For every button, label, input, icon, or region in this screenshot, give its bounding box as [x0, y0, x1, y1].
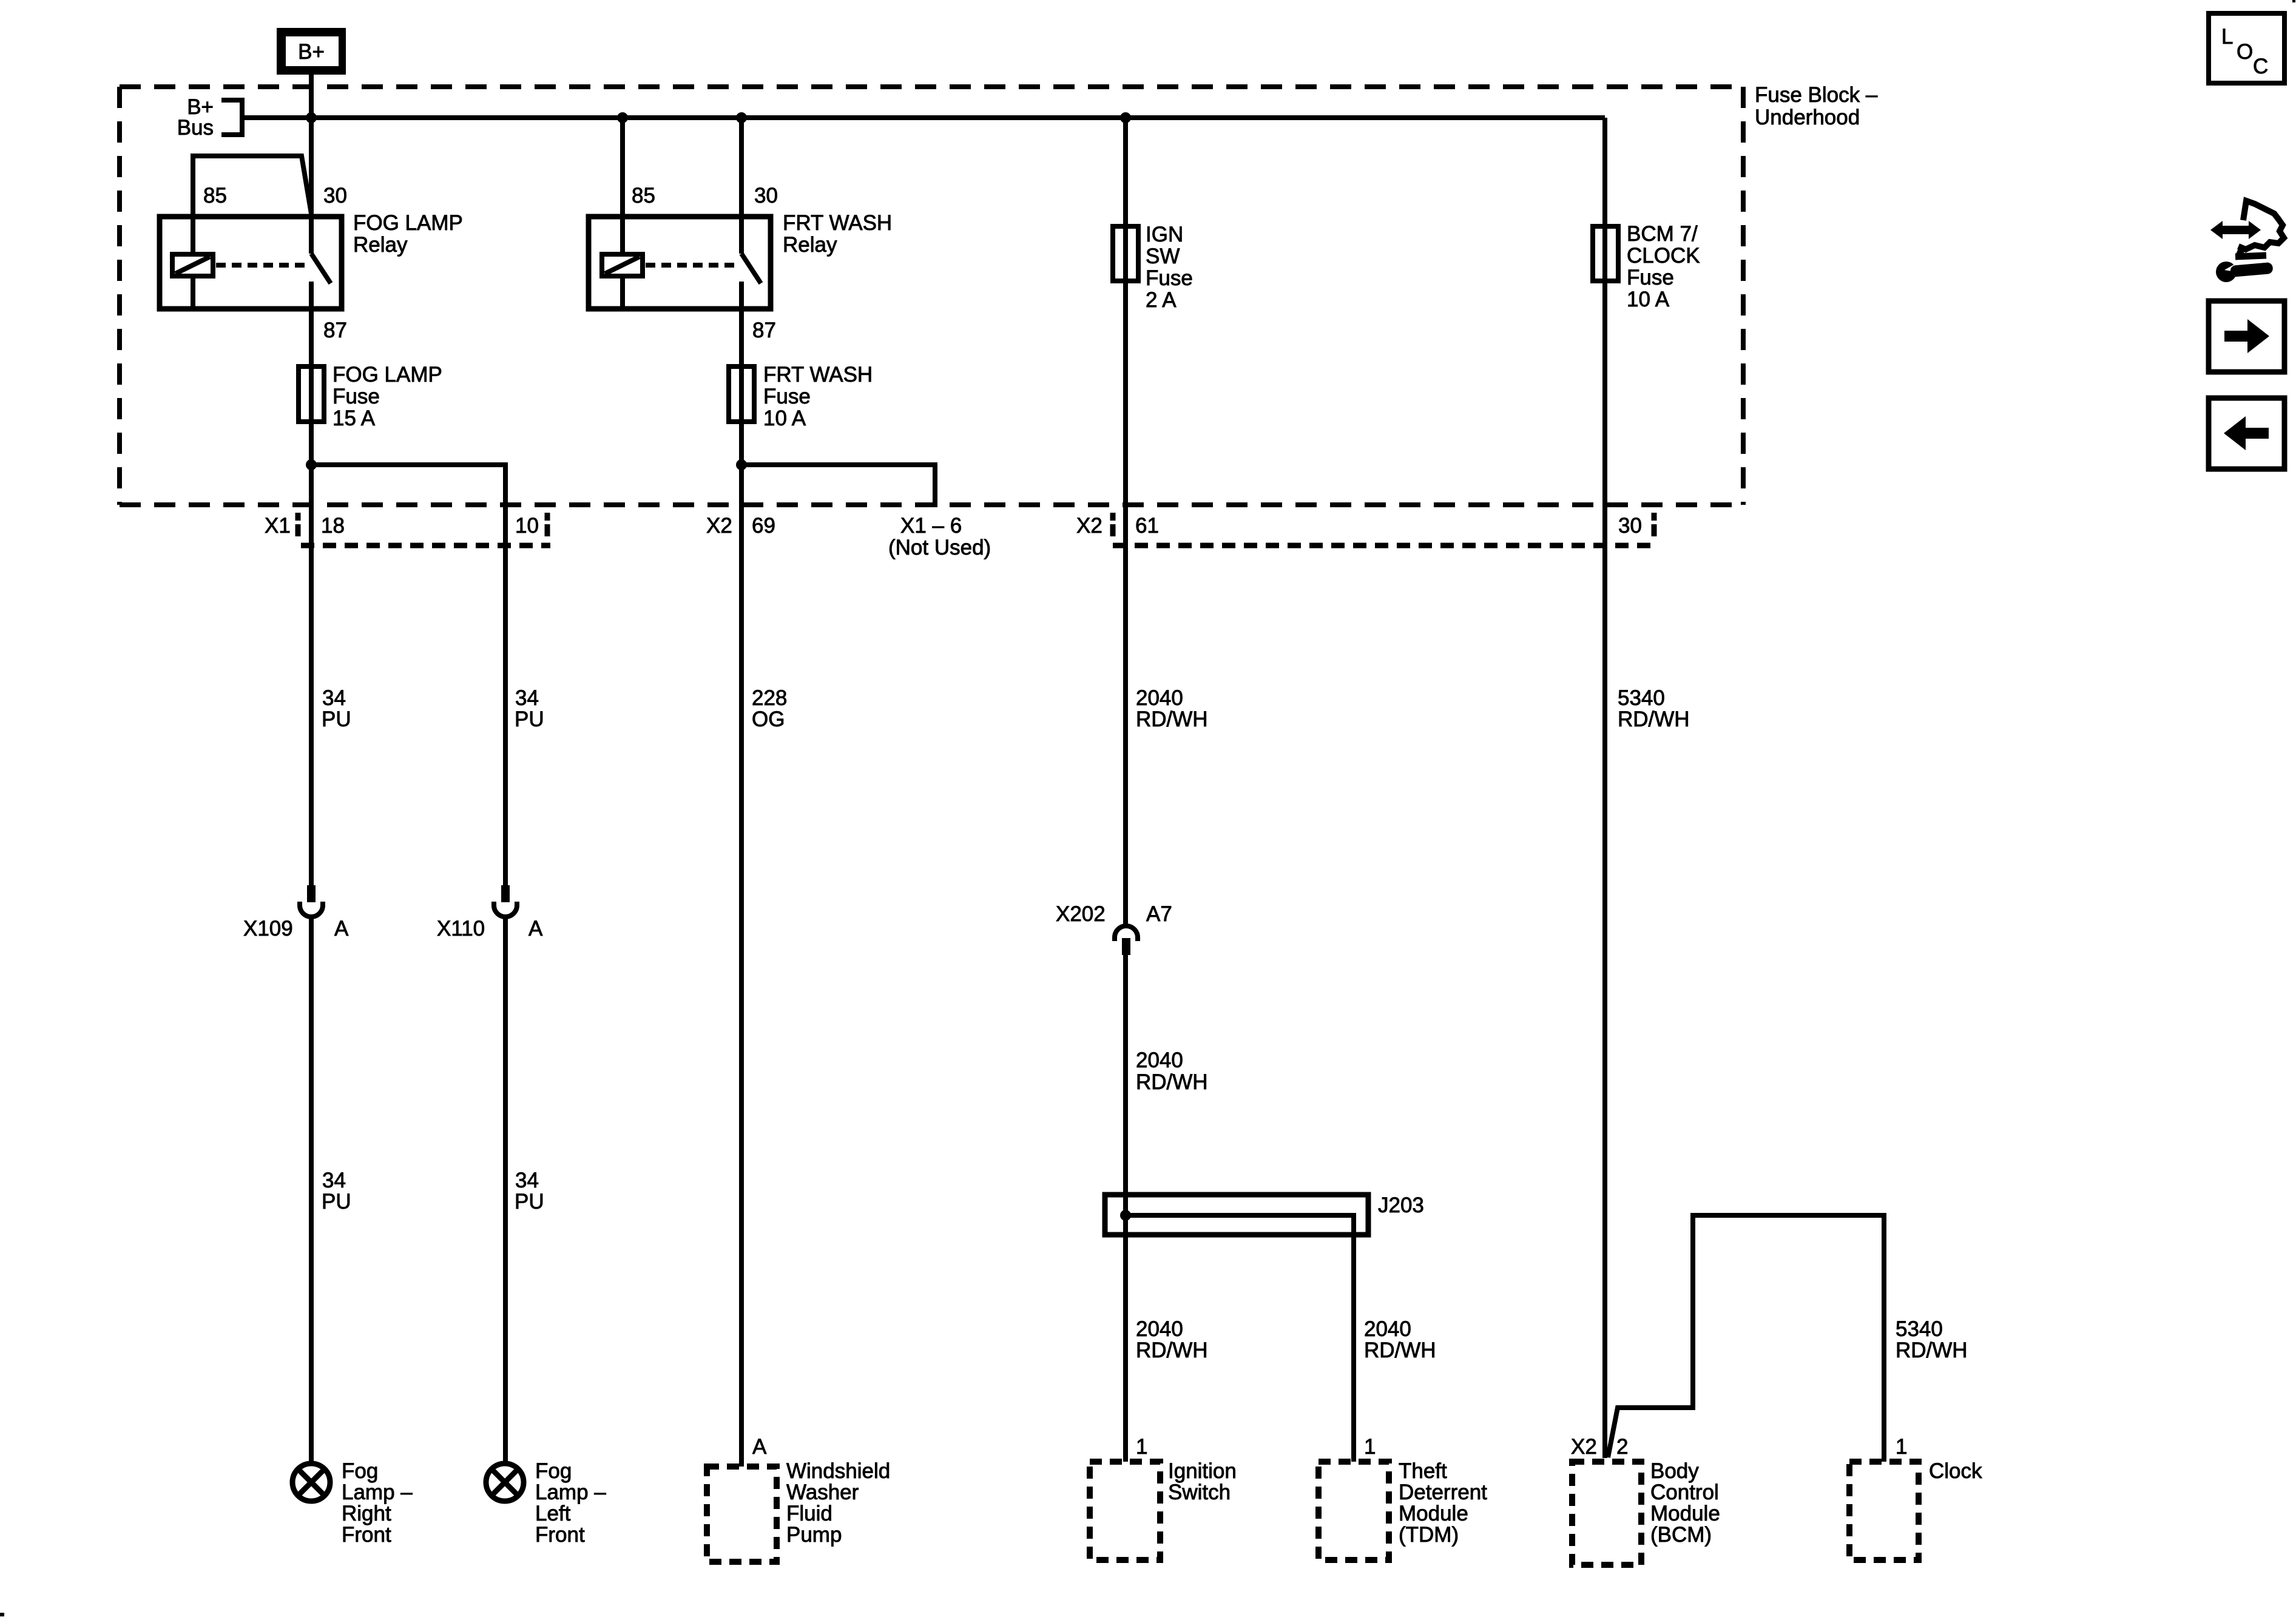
svg-text:Control: Control [1650, 1480, 1719, 1504]
svg-text:Bus: Bus [177, 116, 214, 140]
svg-text:2040: 2040 [1136, 686, 1183, 710]
wire bus to FRT WASH relay pin 85 [620, 118, 625, 254]
label X2 pin 69 [706, 514, 775, 538]
svg-text:Theft: Theft [1399, 1459, 1447, 1483]
svg-text:2040: 2040 [1136, 1317, 1183, 1341]
svg-text:2040: 2040 [1136, 1048, 1183, 1072]
svg-text:RD/WH: RD/WH [1896, 1338, 1968, 1362]
svg-text:(BCM): (BCM) [1650, 1523, 1712, 1547]
svg-text:2 A: 2 A [1146, 288, 1177, 312]
label BCM 7 CLOCK Fuse 10 A [1627, 222, 1700, 311]
label Body Control Module (BCM) [1650, 1459, 1720, 1547]
svg-text:RD/WH: RD/WH [1364, 1338, 1436, 1362]
svg-text:Underhood: Underhood [1755, 106, 1860, 129]
svg-text:O: O [2237, 40, 2253, 64]
svg-text:RD/WH: RD/WH [1136, 1338, 1208, 1362]
svg-text:J203: J203 [1378, 1193, 1424, 1217]
svg-text:FRT WASH: FRT WASH [783, 211, 892, 235]
page corner mark top right [2292, 0, 2295, 2]
lamp fog left front [486, 1463, 524, 1501]
svg-text:C: C [2253, 55, 2268, 78]
splice J203 [1105, 1195, 1368, 1235]
svg-text:10 A: 10 A [1627, 288, 1670, 311]
svg-text:34: 34 [322, 686, 346, 710]
svg-text:(TDM): (TDM) [1399, 1523, 1459, 1547]
wire J203 to theft deterrent module [1126, 1215, 1354, 1462]
fuse BCM 7 CLOCK 10A [1593, 226, 1618, 281]
component body control module [1572, 1462, 1641, 1565]
svg-text:IGN: IGN [1146, 223, 1183, 246]
svg-text:PU: PU [515, 707, 544, 731]
wire X109 to fog lamp right [309, 916, 314, 1462]
junction FOG LAMP fuse output [306, 459, 317, 470]
svg-text:87: 87 [752, 319, 776, 342]
wire label 2040 RD/WH mid [1136, 1048, 1208, 1094]
svg-text:Relay: Relay [783, 233, 837, 257]
wire bus to FOG LAMP relay pin 30 [309, 118, 314, 254]
svg-text:Fuse: Fuse [333, 385, 380, 408]
fuse FOG LAMP 15A [299, 366, 324, 422]
component theft deterrent module [1319, 1462, 1389, 1560]
fuse block underhood border [120, 87, 1743, 505]
svg-text:X2: X2 [1571, 1435, 1597, 1459]
wire label 34 PU left fog upper [515, 686, 544, 731]
svg-text:85: 85 [632, 184, 655, 208]
svg-text:69: 69 [752, 514, 775, 538]
wire stub X1-6 not used [741, 465, 935, 507]
svg-text:X109: X109 [243, 917, 293, 940]
svg-text:Deterrent: Deterrent [1399, 1480, 1487, 1504]
svg-text:CLOCK: CLOCK [1627, 244, 1700, 268]
junction bus at FRT WASH relay 30 [736, 112, 747, 123]
node B+ Bus [177, 95, 242, 140]
svg-text:L: L [2221, 25, 2233, 49]
junction FRT WASH fuse output [736, 459, 747, 470]
svg-text:RD/WH: RD/WH [1136, 707, 1208, 731]
svg-text:A: A [334, 917, 349, 940]
wire label 5340 RD/WH lower [1896, 1317, 1968, 1362]
svg-text:2: 2 [1616, 1435, 1628, 1459]
svg-text:Front: Front [342, 1523, 391, 1547]
svg-text:(Not Used): (Not Used) [888, 536, 991, 559]
wire X202 to J203 to ignition switch [1123, 954, 1128, 1462]
svg-text:FOG LAMP: FOG LAMP [333, 363, 442, 387]
svg-text:2040: 2040 [1364, 1317, 1411, 1341]
component windshield washer fluid pump [707, 1467, 777, 1562]
svg-text:1: 1 [1896, 1435, 1907, 1459]
label Ignition Switch [1168, 1459, 1237, 1504]
connector X202 [1115, 926, 1138, 955]
connector X109 [300, 885, 323, 917]
wire B+ bus [242, 115, 1605, 120]
label X110 pin A [437, 917, 543, 940]
connector X110 [494, 885, 517, 917]
junction bus at FRT WASH relay 85 [617, 112, 628, 123]
lamp fog right front [292, 1463, 330, 1501]
wire label 228 OG [752, 686, 787, 731]
svg-text:FRT WASH: FRT WASH [763, 363, 873, 387]
wire FRT WASH relay 87 through fuse to washer pump [739, 282, 744, 1467]
label FRT WASH Fuse 10 A [763, 363, 873, 430]
svg-text:30: 30 [754, 184, 778, 208]
svg-text:X1: X1 [265, 514, 291, 538]
svg-text:X2: X2 [1076, 514, 1102, 538]
svg-text:34: 34 [515, 1169, 539, 1192]
svg-text:5340: 5340 [1896, 1317, 1943, 1341]
wire label 5340 RD/WH upper [1618, 686, 1690, 731]
svg-text:Pump: Pump [786, 1523, 842, 1547]
component clock [1849, 1462, 1919, 1560]
label FOG LAMP Fuse 15 A [333, 363, 442, 430]
svg-text:PU: PU [322, 1190, 351, 1214]
svg-text:Module: Module [1399, 1502, 1468, 1525]
wire fuse output to connector X1-18 to X109 [309, 465, 314, 886]
svg-text:Ignition: Ignition [1168, 1459, 1237, 1483]
svg-text:BCM 7/: BCM 7/ [1627, 222, 1698, 246]
svg-text:Front: Front [535, 1523, 585, 1547]
label IGN SW Fuse 2 A [1146, 223, 1193, 312]
svg-text:Switch: Switch [1168, 1480, 1231, 1504]
svg-text:FOG LAMP: FOG LAMP [353, 211, 463, 235]
relay FRT WASH [589, 217, 771, 309]
page corner mark [0, 1613, 4, 1616]
svg-text:34: 34 [515, 686, 539, 710]
svg-text:1: 1 [1364, 1435, 1376, 1459]
fuse FRT WASH 10A [729, 366, 754, 422]
wire branch to X1-10 [311, 465, 505, 886]
svg-text:30: 30 [323, 184, 347, 208]
svg-text:10: 10 [515, 514, 539, 538]
svg-text:Lamp –: Lamp – [535, 1480, 606, 1504]
svg-text:A7: A7 [1146, 902, 1172, 926]
svg-text:X1 – 6: X1 – 6 [900, 514, 962, 538]
svg-text:10 A: 10 A [763, 407, 806, 430]
svg-text:87: 87 [323, 319, 347, 342]
icon diagnostic hand wrench [2210, 201, 2284, 282]
icon LOC box [2209, 13, 2284, 83]
svg-text:Fuse Block –: Fuse Block – [1755, 83, 1878, 107]
label X109 pin A [243, 917, 349, 940]
svg-text:Fog: Fog [342, 1459, 378, 1483]
svg-text:Fuse: Fuse [1627, 266, 1674, 289]
svg-text:228: 228 [752, 686, 787, 710]
svg-text:18: 18 [321, 514, 345, 538]
svg-text:Lamp –: Lamp – [342, 1480, 413, 1504]
svg-text:B+: B+ [298, 40, 325, 64]
svg-text:RD/WH: RD/WH [1136, 1070, 1208, 1094]
svg-text:PU: PU [322, 707, 351, 731]
svg-text:Body: Body [1650, 1459, 1699, 1483]
wire FOG LAMP relay 87 to fuse to junction [309, 282, 314, 465]
svg-text:Fuse: Fuse [1146, 266, 1193, 290]
wire label 2040 RD/WH lower right [1364, 1317, 1436, 1362]
svg-text:Washer: Washer [786, 1480, 859, 1504]
svg-text:34: 34 [322, 1169, 346, 1192]
svg-text:Relay: Relay [353, 233, 408, 257]
label FRT WASH Relay [783, 211, 892, 257]
svg-text:A: A [528, 917, 543, 940]
svg-text:15 A: 15 A [333, 407, 376, 430]
relay FOG LAMP [160, 156, 342, 309]
svg-text:Right: Right [342, 1502, 391, 1525]
wire bus corner to BCM fuse down to BCM [1602, 118, 1607, 1458]
svg-text:Fluid: Fluid [786, 1502, 832, 1525]
svg-text:Fuse: Fuse [763, 385, 811, 408]
svg-text:1: 1 [1136, 1435, 1147, 1459]
pin X2 2 label BCM [1571, 1435, 1628, 1459]
component ignition switch [1090, 1462, 1160, 1560]
label Windshield Washer Fluid Pump [786, 1459, 890, 1547]
svg-text:X202: X202 [1056, 902, 1106, 926]
connector X1 ticks and edge [298, 513, 550, 545]
svg-text:X2: X2 [706, 514, 732, 538]
wire BCM branch to clock [1608, 1215, 1884, 1462]
wire label 2040 RD/WH upper [1136, 686, 1208, 731]
fuse IGN SW 2A [1113, 226, 1138, 281]
label X202 pin A7 [1056, 902, 1172, 926]
icon forward arrow [2209, 301, 2284, 372]
wire label 34 PU right fog lower [322, 1169, 351, 1214]
svg-text:5340: 5340 [1618, 686, 1665, 710]
wire label 34 PU left fog lower [515, 1169, 544, 1214]
svg-text:PU: PU [515, 1190, 544, 1214]
label FOG LAMP Relay [353, 211, 463, 257]
wire B+ feed [309, 75, 314, 120]
svg-text:SW: SW [1146, 245, 1180, 268]
svg-text:30: 30 [1618, 514, 1642, 538]
svg-text:85: 85 [203, 184, 227, 208]
svg-text:61: 61 [1135, 514, 1159, 538]
label Fuse Block - Underhood [1755, 83, 1878, 129]
wire bus to FRT WASH relay pin 30 [739, 118, 744, 254]
wire bus to IGN SW fuse to X202 [1123, 118, 1128, 925]
svg-text:OG: OG [752, 707, 785, 731]
svg-text:RD/WH: RD/WH [1618, 707, 1690, 731]
icon back arrow [2209, 398, 2284, 469]
svg-text:Windshield: Windshield [786, 1459, 890, 1483]
svg-text:Left: Left [535, 1502, 571, 1525]
svg-text:X110: X110 [437, 917, 485, 940]
label Fog Lamp Right Front [342, 1459, 413, 1547]
wire label 34 PU right fog upper [322, 686, 351, 731]
B+ power symbol [277, 28, 346, 75]
label X1-6 not used [888, 514, 991, 559]
junction bus at IGN SW fuse [1120, 112, 1131, 123]
wire label 2040 RD/WH lower left [1136, 1317, 1208, 1362]
connector X2 ticks and edge [1113, 513, 1657, 545]
svg-text:Module: Module [1650, 1502, 1720, 1525]
label Fog Lamp Left Front [535, 1459, 606, 1547]
junction bus at FOG LAMP relay 30 [306, 112, 317, 123]
svg-text:Fog: Fog [535, 1459, 572, 1483]
svg-text:Clock: Clock [1929, 1459, 1982, 1483]
svg-text:A: A [752, 1435, 767, 1459]
label Theft Deterrent Module (TDM) [1399, 1459, 1487, 1547]
wire X110 to fog lamp left [503, 916, 508, 1462]
